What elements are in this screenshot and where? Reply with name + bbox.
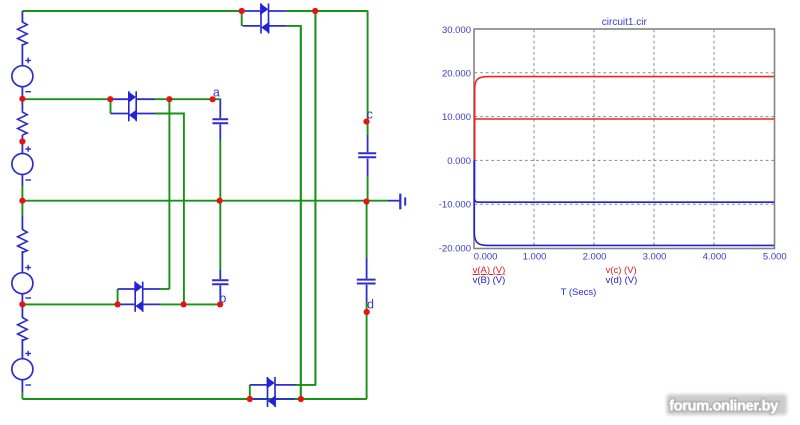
svg-text:d: d: [367, 297, 374, 311]
svg-text:0.000: 0.000: [474, 251, 498, 262]
svg-text:c: c: [367, 108, 373, 122]
svg-text:0.000: 0.000: [447, 156, 471, 167]
svg-text:3.000: 3.000: [643, 251, 667, 262]
svg-text:T (Secs): T (Secs): [561, 287, 597, 298]
svg-text:10.000: 10.000: [442, 112, 471, 123]
svg-text:30.000: 30.000: [442, 25, 471, 36]
svg-text:1.000: 1.000: [523, 251, 547, 262]
svg-text:-10.000: -10.000: [439, 200, 471, 211]
svg-text:2.000: 2.000: [583, 251, 607, 262]
svg-text:5.000: 5.000: [763, 251, 787, 262]
svg-text:-20.000: -20.000: [439, 244, 471, 255]
svg-text:forum.onliner.by: forum.onliner.by: [669, 398, 779, 414]
svg-text:v(d) (V): v(d) (V): [606, 275, 638, 286]
svg-text:20.000: 20.000: [442, 68, 471, 79]
svg-text:b: b: [219, 292, 226, 306]
svg-text:4.000: 4.000: [703, 251, 727, 262]
svg-text:a: a: [213, 85, 220, 99]
svg-text:v(B) (V): v(B) (V): [473, 275, 506, 286]
svg-text:circuit1.cir: circuit1.cir: [602, 17, 648, 28]
